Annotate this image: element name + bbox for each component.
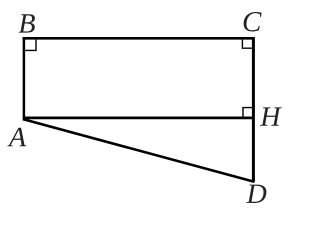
right angle mark at B <box>25 40 36 51</box>
wire AD (diagonal) <box>24 119 254 181</box>
node label A <box>7 128 26 146</box>
right angle mark at H <box>243 108 252 117</box>
wire CD (right side) <box>252 37 255 182</box>
node label B <box>19 14 35 32</box>
right angle mark at C <box>242 40 252 49</box>
node label H <box>260 107 282 125</box>
node label D <box>246 185 266 203</box>
wire BA (left side) <box>23 37 26 121</box>
node label C <box>244 12 262 31</box>
wire AH (horizontal) <box>24 117 254 120</box>
wire BC (top side) <box>23 37 255 40</box>
